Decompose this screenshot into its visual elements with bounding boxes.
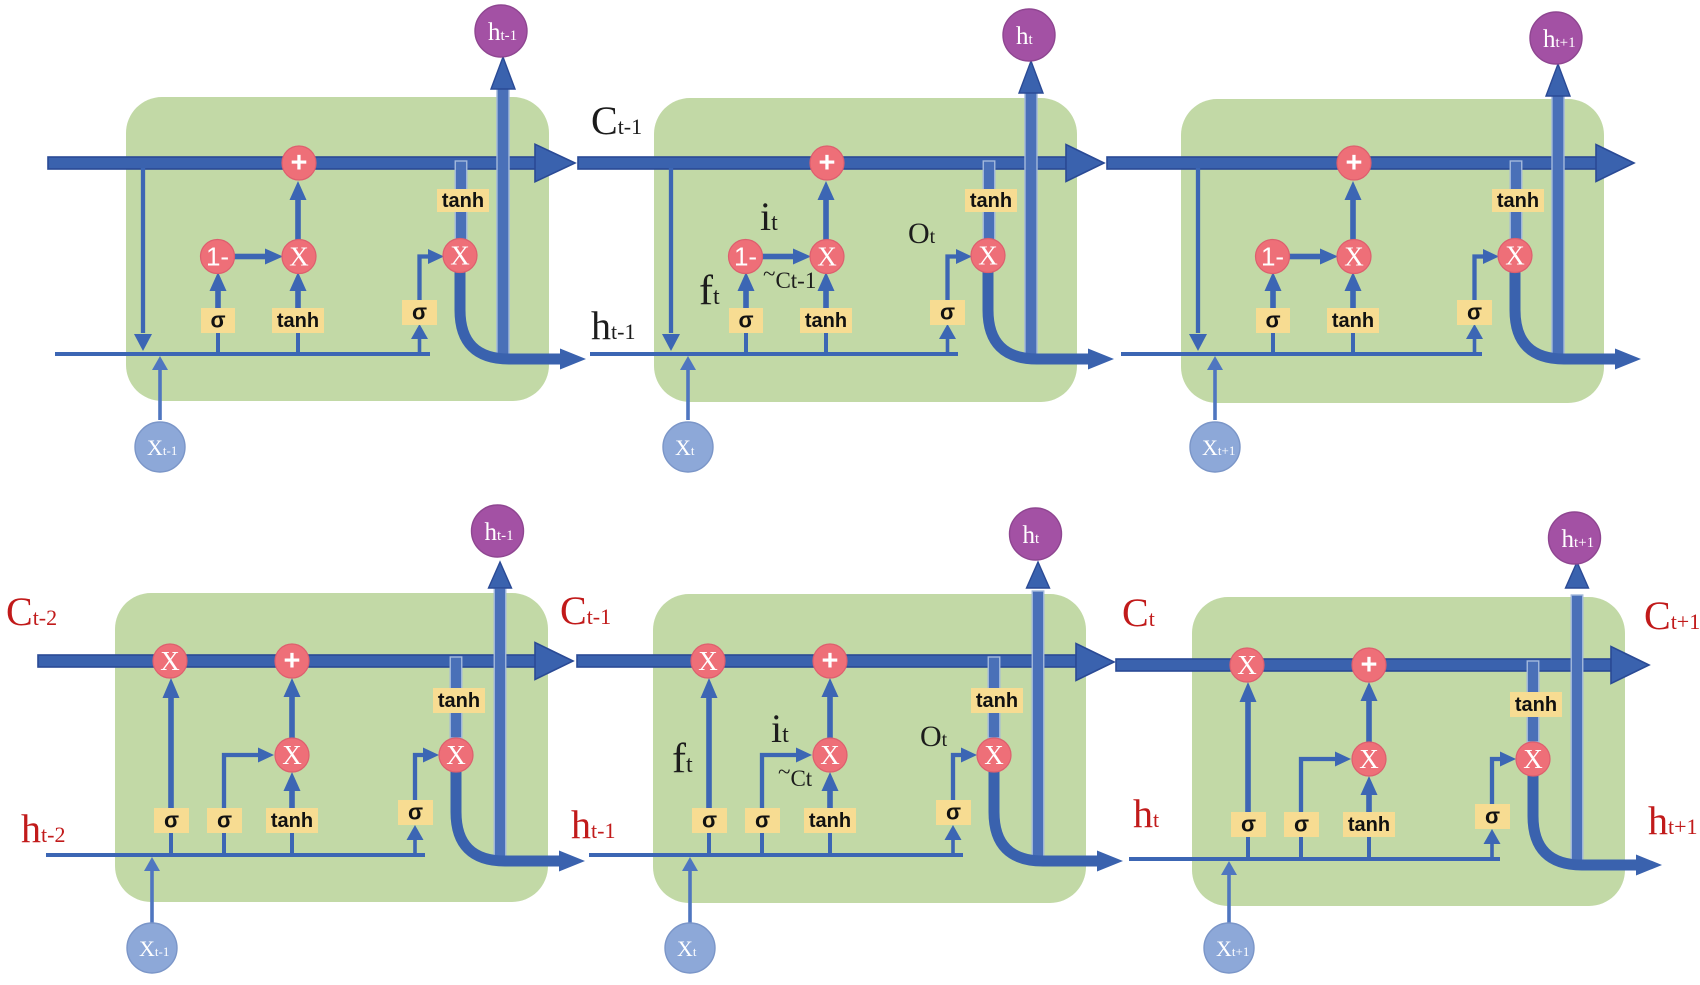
cell B1 input circle xt-1	[127, 923, 177, 973]
cell T1 arrow 1- node to X node	[234, 254, 266, 260]
svg-text:Ct: Ct	[1122, 590, 1155, 635]
svg-text:ht+1: ht+1	[1648, 798, 1698, 843]
svg-text:tanh: tanh	[442, 190, 484, 212]
svg-text:σ: σ	[1241, 812, 1256, 837]
cell-state line C top row segment 2	[578, 157, 1066, 169]
hidden-state line h top row segment 2	[590, 352, 958, 356]
cell T2 wire h line to tanh gate	[824, 331, 828, 354]
cell-state line C top row segment 1	[48, 157, 536, 169]
cell T3 X node input gate	[1337, 240, 1371, 274]
cell B3 tanh gate box	[1343, 812, 1395, 837]
svg-text:X: X	[820, 740, 840, 770]
cell B1 input arrow from xt-1	[150, 869, 154, 923]
cell T1 vertical bar C line to tanh output X node	[455, 161, 467, 240]
cell T2 tanh label box on output bar	[965, 189, 1017, 212]
cell-state line C top row segment 3	[1107, 157, 1597, 169]
cell B2 hidden output circle ht	[1010, 508, 1062, 560]
cell B1 X node forget gate on C line	[153, 644, 187, 678]
svg-text:tanh: tanh	[805, 310, 847, 332]
cell B1 vertical wire to hidden output	[494, 588, 506, 862]
cell T3 elbow wire sigma 2 to output X node	[1475, 257, 1485, 301]
cell T1 arrow sigma 1 to 1- node	[215, 288, 221, 308]
svg-text:Ct-1: Ct-1	[591, 98, 642, 143]
cell T1 thick curved wire X node to h output	[460, 268, 562, 359]
cell T3 hidden output circle ht+1	[1530, 12, 1582, 64]
cell B2 input circle xt	[665, 923, 715, 973]
hidden-state line h bottom row segment 2	[589, 853, 963, 857]
svg-text:X: X	[1523, 744, 1543, 774]
LSTM cell B1 background	[115, 593, 548, 902]
cell B1 X node output gate	[439, 738, 473, 772]
cell B2 vertical wire to hidden output	[1032, 591, 1044, 862]
cell B3 input circle xt+1	[1204, 923, 1254, 973]
LSTM cell T2 background	[654, 98, 1077, 402]
cell T3 vertical wire to hidden output	[1552, 95, 1564, 360]
cell B3 + node on C line	[1352, 648, 1386, 682]
cell-state arrowhead after cell B1	[535, 643, 573, 680]
cell T3 + node on C line	[1337, 146, 1371, 180]
svg-text:σ: σ	[940, 300, 955, 325]
cell B3 wire h line to tanh gate	[1367, 835, 1371, 859]
svg-text:tanh: tanh	[1348, 814, 1390, 836]
svg-text:σ: σ	[1265, 308, 1280, 333]
cell B2 input arrow from xt	[688, 869, 692, 923]
svg-text:σ: σ	[210, 308, 225, 333]
cell B1 arrow X node to + node	[289, 694, 295, 738]
cell T2 vertical bar C line to tanh output X node	[983, 161, 995, 240]
cell B3 X node candidate gate	[1352, 742, 1386, 776]
cell T3 arrow X node to + node	[1350, 196, 1356, 240]
cell B3 sigma gate box 3	[1475, 804, 1510, 829]
hidden-state line h bottom row segment 1	[46, 853, 425, 857]
cell B1 hidden output circle ht-1	[472, 505, 524, 557]
cell B2 + node on C line	[813, 644, 847, 678]
cell T1 arrow X node to + node	[295, 196, 301, 240]
cell B1 + node on C line	[275, 644, 309, 678]
cell B1 vertical bar C line to tanh output X node	[450, 657, 462, 738]
cell T2 h output arrowhead	[1088, 349, 1114, 370]
svg-text:tanh: tanh	[438, 690, 480, 712]
cell T3 wire h line to sigma gate 1	[1271, 331, 1275, 354]
cell T1 X node output gate	[443, 239, 477, 273]
cell T1 arrow h line to sigma gate 2	[418, 338, 422, 354]
cell T1 X node input gate	[282, 240, 316, 274]
svg-text:ht-1: ht-1	[571, 802, 615, 847]
svg-text:σ: σ	[1467, 300, 1482, 325]
svg-text:X: X	[282, 740, 302, 770]
hidden-state line h top row segment 3	[1121, 352, 1482, 356]
cell B3 h output arrowhead	[1636, 855, 1662, 876]
cell-state arrowhead after cell T3	[1596, 145, 1634, 182]
cell T2 sigma gate box 2	[930, 300, 965, 325]
cell B3 arrow X node to + node	[1366, 698, 1372, 742]
cell T2 1- node	[729, 240, 763, 274]
cell T3 wire from C line down to h line	[1196, 168, 1200, 333]
cell B1 elbow wire sigma 2 to candidate X node	[224, 755, 258, 808]
cell T1 wire h line to sigma gate 1	[216, 331, 220, 354]
cell B1 elbow wire sigma 3 to output X node	[415, 755, 424, 800]
svg-text:σ: σ	[164, 808, 179, 833]
cell B2 X node forget gate on C line	[691, 644, 725, 678]
cell-state arrowhead after cell B3	[1611, 647, 1649, 684]
cell T3 sigma gate box 2	[1457, 300, 1492, 325]
svg-text:+: +	[284, 645, 301, 677]
cell T2 arrow sigma 1 to 1- node	[743, 288, 749, 308]
svg-text:1-: 1-	[734, 242, 757, 272]
cell B2 arrow tanh to X node	[827, 788, 833, 808]
cell T3 arrow 1- node to X node	[1289, 254, 1321, 260]
cell T1 hidden output circle ht-1	[475, 5, 527, 57]
cell T3 sigma gate box 1	[1256, 308, 1290, 333]
cell T3 tanh gate box	[1327, 308, 1379, 333]
svg-text:X: X	[984, 740, 1004, 770]
cell T2 + node on C line	[810, 146, 844, 180]
svg-text:+: +	[1346, 147, 1363, 179]
svg-text:σ: σ	[755, 808, 770, 833]
svg-text:+: +	[822, 645, 839, 677]
cell T1 tanh gate box	[272, 308, 324, 333]
cell B2 X node output gate	[977, 738, 1011, 772]
svg-text:tanh: tanh	[976, 690, 1018, 712]
cell T1 vertical wire to hidden output	[497, 88, 509, 360]
cell B1 wire h line to sigma gate 1	[169, 831, 173, 855]
svg-text:tanh: tanh	[1515, 694, 1557, 716]
cell T3 arrow tanh to X node	[1350, 288, 1356, 308]
cell T2 wire from C line down to h line	[669, 168, 673, 333]
cell B1 h output arrowhead	[559, 851, 585, 872]
cell B3 elbow wire sigma 2 to candidate X node	[1301, 759, 1335, 812]
cell T1 arrow tanh to X node	[295, 288, 301, 308]
svg-text:X: X	[1344, 242, 1364, 272]
cell B1 arrow tanh to X node	[289, 788, 295, 808]
hidden-state line h top row segment 1	[55, 352, 430, 356]
svg-text:X: X	[978, 241, 998, 271]
cell T2 vertical wire to hidden output	[1025, 92, 1037, 360]
cell T2 input circle xt	[663, 422, 713, 472]
svg-text:X: X	[446, 740, 466, 770]
svg-text:σ: σ	[217, 808, 232, 833]
cell T1 elbow wire sigma 2 to output X node	[420, 257, 430, 301]
cell B3 sigma gate box 1	[1231, 812, 1266, 837]
svg-text:σ: σ	[946, 800, 961, 825]
svg-text:tanh: tanh	[1497, 190, 1539, 212]
svg-text:X: X	[1359, 744, 1379, 774]
LSTM cell T1 background	[126, 97, 549, 401]
cell T1 1- node	[201, 240, 235, 274]
cell B1 arrow h line to sigma gate 3	[413, 839, 417, 855]
cell B2 h output arrowhead	[1097, 851, 1123, 872]
cell B3 arrow sigma forget gate to X node on C line	[1245, 698, 1251, 812]
cell B3 input arrow from xt+1	[1227, 873, 1231, 923]
svg-text:1-: 1-	[206, 242, 229, 272]
cell T2 arrow 1- node to X node	[762, 254, 794, 260]
cell T3 vertical bar C line to tanh output X node	[1510, 161, 1522, 240]
svg-text:tanh: tanh	[271, 810, 313, 832]
cell B1 arrowhead to hidden output circle	[489, 562, 512, 588]
svg-text:ht-1: ht-1	[591, 303, 635, 348]
svg-text:tanh: tanh	[277, 310, 319, 332]
cell B3 vertical wire to hidden output	[1571, 595, 1583, 866]
svg-text:tanh: tanh	[809, 810, 851, 832]
cell B2 arrow h line to sigma gate 3	[951, 839, 955, 855]
cell B1 sigma gate box 3	[398, 800, 433, 825]
cell-state line C bottom row segment 2	[577, 655, 1076, 667]
cell B3 wire h line to sigma gate 2	[1299, 835, 1303, 859]
cell T3 input arrow from xt+1	[1213, 368, 1217, 420]
cell B2 sigma gate box 2	[745, 808, 780, 833]
svg-text:Ct+1: Ct+1	[1644, 593, 1700, 638]
cell B1 sigma gate box 1	[154, 808, 189, 833]
cell B3 X node forget gate on C line	[1230, 648, 1264, 682]
cell T1 sigma gate box 2	[402, 300, 437, 325]
cell T3 arrowhead to hidden output circle	[1546, 64, 1570, 96]
cell T1 input circle xt-1	[135, 422, 185, 472]
cell-state line C bottom row segment 3	[1116, 659, 1611, 671]
cell T3 1- node	[1256, 240, 1290, 274]
hidden-state line h bottom row segment 3	[1129, 857, 1500, 861]
cell B3 arrowhead to hidden output circle	[1566, 562, 1589, 588]
cell B3 thick curved wire X node to h output	[1533, 772, 1637, 865]
cell T1 sigma gate box 1	[201, 308, 235, 333]
cell T1 h output arrowhead	[560, 349, 586, 370]
svg-text:σ: σ	[1485, 804, 1500, 829]
svg-text:Ct-2: Ct-2	[6, 589, 57, 634]
cell T1 input arrow from xt-1	[158, 368, 162, 420]
svg-text:+: +	[291, 147, 308, 179]
cell B3 wire h line to sigma gate 1	[1246, 835, 1250, 859]
svg-text:ht: ht	[1133, 791, 1159, 836]
cell T2 arrow X node to + node	[823, 196, 829, 240]
cell B3 X node output gate	[1516, 742, 1550, 776]
cell B2 wire h line to sigma gate 1	[707, 831, 711, 855]
LSTM cell T3 background	[1181, 99, 1604, 403]
cell B3 hidden output circle ht+1	[1549, 512, 1601, 564]
cell B1 sigma gate box 2	[207, 808, 242, 833]
cell T3 down arrowhead onto h line	[1189, 334, 1207, 351]
cell T1 wire h line to tanh gate	[296, 331, 300, 354]
cell B2 tanh label box on output bar	[971, 688, 1023, 713]
svg-text:X: X	[698, 646, 718, 676]
cell B2 wire h line to tanh gate	[828, 831, 832, 855]
cell T2 arrow tanh to X node	[823, 288, 829, 308]
cell B2 X node candidate gate	[813, 738, 847, 772]
cell B1 tanh label box on output bar	[433, 688, 485, 713]
cell B2 elbow wire sigma 3 to output X node	[953, 755, 962, 800]
cell B2 sigma gate box 1	[692, 808, 727, 833]
cell B1 wire h line to sigma gate 2	[222, 831, 226, 855]
cell T2 arrowhead to hidden output circle	[1019, 61, 1043, 93]
svg-text:σ: σ	[738, 308, 753, 333]
cell T2 hidden output circle ht	[1003, 9, 1055, 61]
LSTM cell B3 background	[1192, 597, 1625, 906]
cell T3 arrow sigma 1 to 1- node	[1270, 288, 1276, 308]
cell-state arrowhead after cell T2	[1066, 145, 1104, 182]
cell T2 sigma gate box 1	[729, 308, 763, 333]
svg-text:X: X	[1237, 650, 1257, 680]
svg-text:tanh: tanh	[1332, 310, 1374, 332]
cell B3 elbow wire sigma 3 to output X node	[1492, 759, 1501, 804]
cell T2 X node output gate	[971, 239, 1005, 273]
svg-text:X: X	[289, 242, 309, 272]
cell B2 wire h line to sigma gate 2	[760, 831, 764, 855]
cell B2 sigma gate box 3	[936, 800, 971, 825]
cell B1 thick curved wire X node to h output	[456, 768, 560, 861]
cell B1 tanh gate box	[266, 808, 318, 833]
svg-text:tanh: tanh	[970, 190, 1012, 212]
svg-text:Ct-1: Ct-1	[560, 588, 611, 633]
cell T1 down arrowhead onto h line	[134, 334, 152, 351]
cell T3 arrow h line to sigma gate 2	[1473, 338, 1477, 354]
cell T1 + node on C line	[282, 146, 316, 180]
cell T2 wire h line to sigma gate 1	[744, 331, 748, 354]
svg-text:+: +	[1361, 649, 1378, 681]
svg-text:X: X	[1505, 241, 1525, 271]
cell-state arrowhead after cell B2	[1076, 644, 1114, 681]
cell T2 X node input gate	[810, 240, 844, 274]
cell T3 wire h line to tanh gate	[1351, 331, 1355, 354]
svg-text:σ: σ	[702, 808, 717, 833]
cell T3 thick curved wire X node to h output	[1515, 268, 1617, 359]
svg-text:X: X	[817, 242, 837, 272]
cell B2 vertical bar C line to tanh output X node	[988, 657, 1000, 738]
cell T2 arrow h line to sigma gate 2	[946, 338, 950, 354]
cell B1 arrow sigma forget gate to X node on C line	[168, 694, 174, 808]
cell B3 sigma gate box 2	[1284, 812, 1319, 837]
cell B1 wire h line to tanh gate	[290, 831, 294, 855]
cell B2 arrow X node to + node	[827, 694, 833, 738]
cell B2 tanh gate box	[804, 808, 856, 833]
cell B2 arrowhead to hidden output circle	[1027, 562, 1050, 588]
cell T2 input arrow from xt	[686, 368, 690, 420]
cell T1 wire from C line down to h line	[141, 168, 145, 333]
svg-text:X: X	[450, 241, 470, 271]
cell T2 down arrowhead onto h line	[662, 334, 680, 351]
cell T3 tanh label box on output bar	[1492, 189, 1544, 212]
cell B3 arrow h line to sigma gate 3	[1490, 843, 1494, 859]
cell T3 h output arrowhead	[1615, 349, 1641, 370]
svg-text:X: X	[160, 646, 180, 676]
svg-text:σ: σ	[408, 800, 423, 825]
cell-state line C bottom row segment 1	[38, 655, 536, 667]
svg-text:+: +	[819, 147, 836, 179]
cell T3 X node output gate	[1498, 239, 1532, 273]
cell B3 arrow tanh to X node	[1366, 792, 1372, 812]
cell-state arrowhead after cell T1	[535, 144, 575, 182]
cell B3 tanh label box on output bar	[1510, 692, 1562, 717]
cell T3 input circle xt+1	[1190, 422, 1240, 472]
cell B1 X node candidate gate	[275, 738, 309, 772]
LSTM cell B2 background	[653, 594, 1086, 903]
cell T2 elbow wire sigma 2 to output X node	[948, 257, 958, 301]
svg-text:σ: σ	[412, 300, 427, 325]
cell B3 vertical bar C line to tanh output X node	[1527, 661, 1539, 742]
cell T1 arrowhead to hidden output circle	[491, 57, 515, 89]
cell T1 tanh label box on output bar	[437, 189, 489, 212]
cell B2 elbow wire sigma 2 to candidate X node	[762, 755, 796, 808]
svg-text:ht-2: ht-2	[21, 806, 65, 851]
cell T2 thick curved wire X node to h output	[988, 268, 1090, 359]
cell T2 tanh gate box	[800, 308, 852, 333]
svg-text:1-: 1-	[1261, 242, 1284, 272]
cell B2 arrow sigma forget gate to X node on C line	[706, 694, 712, 808]
svg-text:σ: σ	[1294, 812, 1309, 837]
cell B2 thick curved wire X node to h output	[994, 768, 1098, 861]
